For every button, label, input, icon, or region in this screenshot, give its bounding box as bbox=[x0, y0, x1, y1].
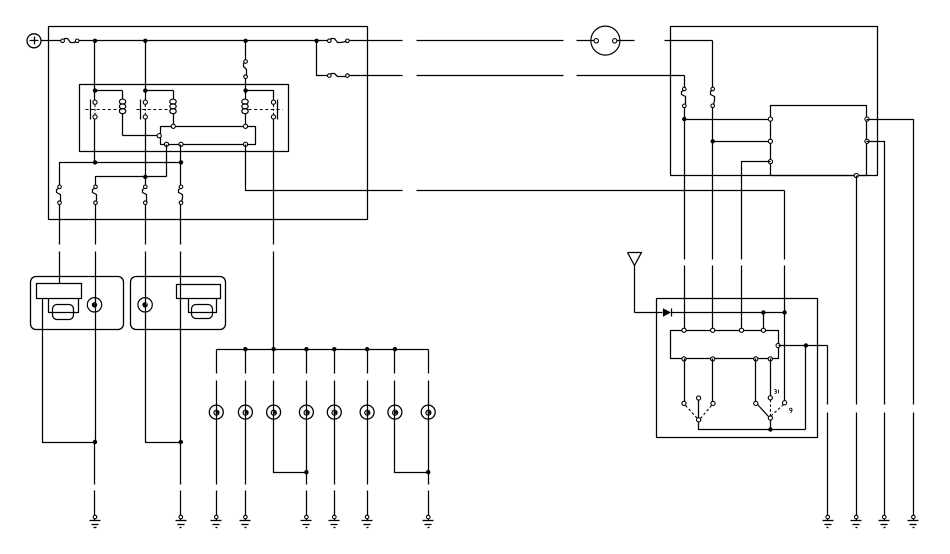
pin sub-box top 1 bbox=[171, 124, 175, 128]
wire relay K1 coil feed bbox=[95, 90, 123, 92]
wire lamp L8 to ground bbox=[428, 413, 430, 516]
lamp L7 bbox=[388, 405, 402, 419]
fuse F9 bbox=[179, 185, 183, 205]
control connector sub-box bbox=[161, 127, 256, 145]
pin IC top 4 bbox=[761, 328, 765, 332]
wire M2 to ground bbox=[180, 443, 182, 516]
lamp L4 bbox=[299, 405, 313, 419]
pin sub-box bottom 1 bbox=[164, 142, 168, 146]
wire lamp L1 to ground bbox=[216, 413, 218, 516]
keyless control unit outer box bbox=[671, 27, 878, 176]
actuator M2 plunger knob bbox=[192, 305, 213, 319]
switch S2 blade b (dashed) bbox=[772, 405, 784, 416]
wire relay K1 coil to connector bbox=[123, 135, 158, 137]
ground G6 bbox=[329, 515, 340, 527]
wire lamp L4 to ground bbox=[306, 413, 308, 516]
wire M1 through bbox=[95, 298, 97, 443]
pin U1-D bbox=[865, 117, 869, 121]
switch S1 contact a bbox=[682, 401, 686, 405]
node lineA-J1 bbox=[93, 160, 97, 164]
pin IC top 2 bbox=[711, 328, 715, 332]
wire feed toward fuse F5 bbox=[245, 41, 247, 60]
wire IC1 to switch S1-a bbox=[684, 359, 686, 402]
wire pin U1-D to right bbox=[867, 120, 914, 405]
fuse F3 bbox=[328, 74, 350, 78]
pin U1-E bbox=[865, 139, 869, 143]
relay K1 coil bbox=[119, 91, 125, 136]
pin IC bottom 1 bbox=[682, 357, 686, 361]
wire F11 line down bbox=[684, 120, 686, 331]
wire feed to relay K2 bbox=[145, 41, 147, 101]
actuator M1 plunger knob bbox=[53, 305, 74, 320]
wire pin IC-right out bbox=[779, 345, 828, 347]
wire G9 lower bbox=[827, 413, 829, 516]
node bus-J bbox=[768, 427, 772, 431]
ground G8 bbox=[423, 515, 434, 527]
wire branch to second feed line bbox=[317, 41, 328, 76]
node lamp bus J2 bbox=[243, 347, 247, 351]
pin sub-box bottom 3 bbox=[243, 142, 247, 146]
switch S1 contact mid bbox=[697, 396, 701, 400]
label 31 bbox=[774, 390, 778, 394]
pin IC top 1 bbox=[682, 328, 686, 332]
wire main1 into fuse F10 bbox=[712, 41, 714, 88]
wire to pin U1-A bbox=[685, 119, 771, 121]
receiver IC box bbox=[671, 331, 779, 359]
node IC-right-J bbox=[804, 343, 808, 347]
switch S1 blade b (dashed) bbox=[701, 406, 712, 419]
fuse F10 bbox=[711, 87, 715, 107]
node relay K2 feed bbox=[143, 88, 147, 92]
wire fuse F9 down bbox=[180, 205, 182, 284]
actuator M1 plunger housing bbox=[49, 299, 79, 313]
battery positive terminal B+ bbox=[27, 34, 41, 48]
node main-J4 bbox=[314, 39, 318, 43]
pin IC top 3 bbox=[739, 328, 743, 332]
node diode-J2 bbox=[782, 310, 786, 314]
wire lamp L4 feed bbox=[306, 350, 308, 413]
label 9 bbox=[790, 408, 792, 413]
node M2 ground join bbox=[179, 440, 183, 444]
relay K2 coil bbox=[170, 91, 176, 125]
pin IC bottom 2 bbox=[711, 357, 715, 361]
wire fuse F5 to relay K3 bbox=[245, 79, 247, 91]
fuse F8 bbox=[143, 185, 148, 205]
node diode-J1 bbox=[761, 310, 765, 314]
door lock actuator M1 case bbox=[31, 277, 124, 330]
ground G1 bbox=[90, 515, 101, 527]
wire lamp L3 feed bbox=[273, 350, 275, 413]
relay K1 contact bbox=[91, 100, 98, 120]
wire F11 to node bbox=[684, 108, 686, 120]
connector C1 (2P) bbox=[591, 26, 620, 55]
wire relay K3 contact feed bbox=[246, 91, 274, 101]
lamp L6 bbox=[360, 405, 374, 419]
switch S1 blade a (dashed) bbox=[686, 406, 698, 419]
fuse F6 bbox=[57, 185, 62, 205]
wire M2 through bbox=[146, 298, 181, 443]
lamp L3 bbox=[267, 405, 281, 419]
wire line2 right segment bbox=[577, 75, 685, 77]
wire main feed bus bbox=[79, 40, 328, 42]
pin C1-1 bbox=[594, 39, 598, 43]
wire lineA bbox=[60, 163, 181, 185]
wire to ground G9 bbox=[827, 346, 829, 405]
wire bus up to IC-right net bbox=[805, 346, 807, 430]
switch S1 contact b bbox=[711, 401, 715, 405]
pin C1-2 bbox=[613, 39, 617, 43]
node lamp bus J6 bbox=[365, 347, 369, 351]
wire line3 down bbox=[784, 191, 786, 313]
receiver unit box bbox=[657, 299, 818, 438]
node lineB-J bbox=[143, 175, 147, 179]
wire node to pin IC-4 bbox=[763, 313, 765, 331]
wire F10 to node bbox=[712, 108, 714, 142]
switch S2 contact b bbox=[783, 401, 787, 405]
fuse F5 bbox=[244, 60, 248, 79]
wire to pin U1-B bbox=[713, 141, 771, 143]
lamp L5 bbox=[327, 405, 341, 419]
wire line1 right segment bbox=[577, 40, 595, 42]
node lamp bus J4 bbox=[304, 347, 308, 351]
wire C1 to right box bbox=[617, 40, 713, 42]
switch S1 pole bbox=[697, 401, 701, 422]
relay K3 link (dashed) bbox=[249, 109, 283, 111]
wire M2 solenoid through bbox=[180, 284, 182, 443]
wire line1 mid segment bbox=[417, 40, 564, 42]
wire lamp L6 to ground bbox=[367, 413, 369, 516]
wire IC4 to switch S2-mid bbox=[770, 359, 772, 396]
wire feed to relay K1 bbox=[94, 41, 96, 101]
node lamp bus J3 bbox=[271, 347, 275, 351]
node M1 ground join bbox=[93, 440, 97, 444]
wire relay K1 contact down bbox=[94, 119, 96, 163]
wire lamp L7 feed bbox=[394, 350, 396, 413]
wire battery to fuse F1 bbox=[41, 40, 61, 42]
pin sub-box top 2 bbox=[243, 124, 247, 128]
wire S2 pole to bus bbox=[770, 421, 772, 430]
pin sub-box bottom 2 bbox=[179, 142, 183, 146]
ground G5 bbox=[301, 515, 312, 527]
relay assembly box bbox=[80, 85, 289, 152]
wire line2 mid segment bbox=[417, 75, 564, 77]
wire fuse F6 down bbox=[59, 205, 61, 284]
lamp supply bus bbox=[217, 349, 429, 351]
wire G12 lower bbox=[913, 413, 915, 516]
wire pin U1-E to right bbox=[867, 142, 885, 405]
wire sub-box pin1 down bbox=[166, 145, 168, 177]
node main-J1 bbox=[93, 39, 97, 43]
wire diode to nodes bbox=[672, 312, 785, 314]
relay K2 link (dashed) bbox=[137, 109, 171, 111]
wire IC2 to switch S1-b bbox=[712, 359, 714, 402]
wire M1 return bbox=[43, 299, 95, 443]
lamp L1 bbox=[209, 405, 223, 419]
wire lamp L7 join bbox=[395, 413, 429, 473]
pin U1-A bbox=[768, 117, 772, 121]
wire sub-box pin2 down bbox=[180, 145, 182, 185]
wire lamp L2 to ground bbox=[245, 413, 247, 516]
fuse F1 bbox=[61, 39, 79, 43]
actuator M2 key cylinder bbox=[138, 298, 152, 312]
wire line3 to switch bbox=[784, 313, 786, 401]
ground G12 bbox=[908, 515, 919, 527]
wire pin U1-F down bbox=[856, 176, 858, 405]
wire relay K2 coil feed bbox=[146, 90, 174, 92]
wire lamp L6 feed bbox=[367, 350, 369, 413]
wire pin U1-C down-left bbox=[742, 162, 771, 331]
wire S1 pole to bus bbox=[699, 422, 806, 430]
node main-J3 bbox=[243, 39, 247, 43]
node relay K1 feed bbox=[93, 88, 97, 92]
switch S2 contact a bbox=[754, 401, 758, 405]
wire lamp L2 feed bbox=[245, 350, 247, 413]
wire fuse F2 to box edge bbox=[350, 40, 403, 42]
actuator M1 solenoid bbox=[37, 284, 82, 299]
lamp L8 bbox=[421, 405, 435, 419]
wire fuse F3 to box edge bbox=[350, 75, 403, 77]
door lock actuator M2 case bbox=[131, 277, 226, 330]
wire antenna to diode bbox=[635, 312, 663, 314]
wire lamp L3 join bbox=[274, 413, 307, 473]
node lamp bus J7 bbox=[393, 347, 397, 351]
pin IC bottom 4 bbox=[768, 357, 772, 361]
actuator M2 solenoid bbox=[177, 285, 221, 299]
ground G3 bbox=[211, 515, 222, 527]
pin U1-B bbox=[768, 139, 772, 143]
switch S2 mid link (dashed) bbox=[770, 400, 772, 416]
wire F10 line down bbox=[712, 142, 714, 331]
pin IC right bbox=[776, 343, 780, 347]
relay K2 contact bbox=[141, 100, 148, 120]
node F10-J bbox=[711, 139, 715, 143]
actuator M2 plunger housing bbox=[189, 299, 217, 313]
switch S2 pole bbox=[768, 416, 772, 420]
node main-J2 bbox=[143, 39, 147, 43]
wire line3 mid segment bbox=[417, 190, 785, 192]
wire sub-box pin3 down bbox=[246, 145, 403, 191]
ground G2 bbox=[176, 515, 187, 527]
relay K3 coil bbox=[242, 91, 248, 125]
fuse F2 bbox=[328, 39, 350, 43]
fuse F7 bbox=[93, 185, 98, 205]
wire lineB bbox=[96, 177, 167, 185]
ground G10 bbox=[851, 515, 862, 527]
lamp L2 bbox=[238, 405, 252, 419]
pin U1-C bbox=[768, 160, 772, 164]
wire main2 into fuse F11 bbox=[684, 76, 686, 88]
switch S2 blade a bbox=[758, 405, 769, 417]
wire IC3 to switch S2-a bbox=[755, 359, 757, 402]
wire lamp L5 feed bbox=[334, 350, 336, 413]
wire K3 contact to lamp bus bbox=[273, 119, 275, 350]
ground G4 bbox=[240, 515, 251, 527]
relay K1 link (dashed) bbox=[86, 109, 121, 111]
ground G9 bbox=[823, 515, 834, 527]
node lineA-J2 bbox=[179, 160, 183, 164]
driver door fuse/relay outer box bbox=[49, 27, 368, 220]
wire fuse F8 down bbox=[145, 205, 147, 298]
node join L3-L4 bbox=[304, 470, 308, 474]
node join L7-L8 bbox=[426, 470, 430, 474]
node lamp bus J5 bbox=[332, 347, 336, 351]
actuator M1 key cylinder bbox=[87, 298, 101, 312]
ground G7 bbox=[362, 515, 373, 527]
wire fuse F7 down bbox=[95, 205, 97, 298]
wire lamp L1 feed bbox=[216, 350, 218, 413]
wire relay K2 contact down bbox=[145, 119, 147, 185]
control unit inner box bbox=[771, 106, 867, 176]
pin IC bottom 3 bbox=[754, 357, 758, 361]
pin U1-F bbox=[854, 173, 858, 177]
switch S2 contact mid bbox=[768, 396, 772, 400]
diode D1 bbox=[663, 308, 672, 316]
fuse F11 bbox=[682, 87, 687, 107]
antenna bbox=[628, 253, 642, 313]
relay K3 contact bbox=[271, 100, 277, 120]
wire lamp L8 feed bbox=[428, 350, 430, 413]
wire G11 lower bbox=[884, 413, 886, 516]
pin sub-box left bbox=[157, 134, 161, 138]
ground G11 bbox=[879, 515, 890, 527]
wire lamp L5 to ground bbox=[334, 413, 336, 516]
wire G10 lower bbox=[856, 413, 858, 516]
wire M1 to ground bbox=[94, 443, 96, 516]
node relay K3 feed bbox=[243, 88, 247, 92]
node F11-J bbox=[682, 117, 686, 121]
